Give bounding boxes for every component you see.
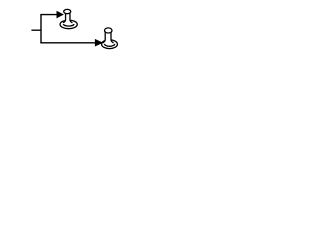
wire: bottom horizontal segment <box>40 42 95 44</box>
wire: left stub <box>31 29 41 31</box>
arrowhead into icon 2 <box>95 40 102 46</box>
icon 2: pin/knob (lower) <box>102 28 118 49</box>
wire: top horizontal segment <box>40 14 57 16</box>
icon 1: small pin/knob (upper) <box>60 9 77 28</box>
arrowhead into icon 1 <box>57 12 63 18</box>
wire: vertical bus <box>40 15 42 43</box>
